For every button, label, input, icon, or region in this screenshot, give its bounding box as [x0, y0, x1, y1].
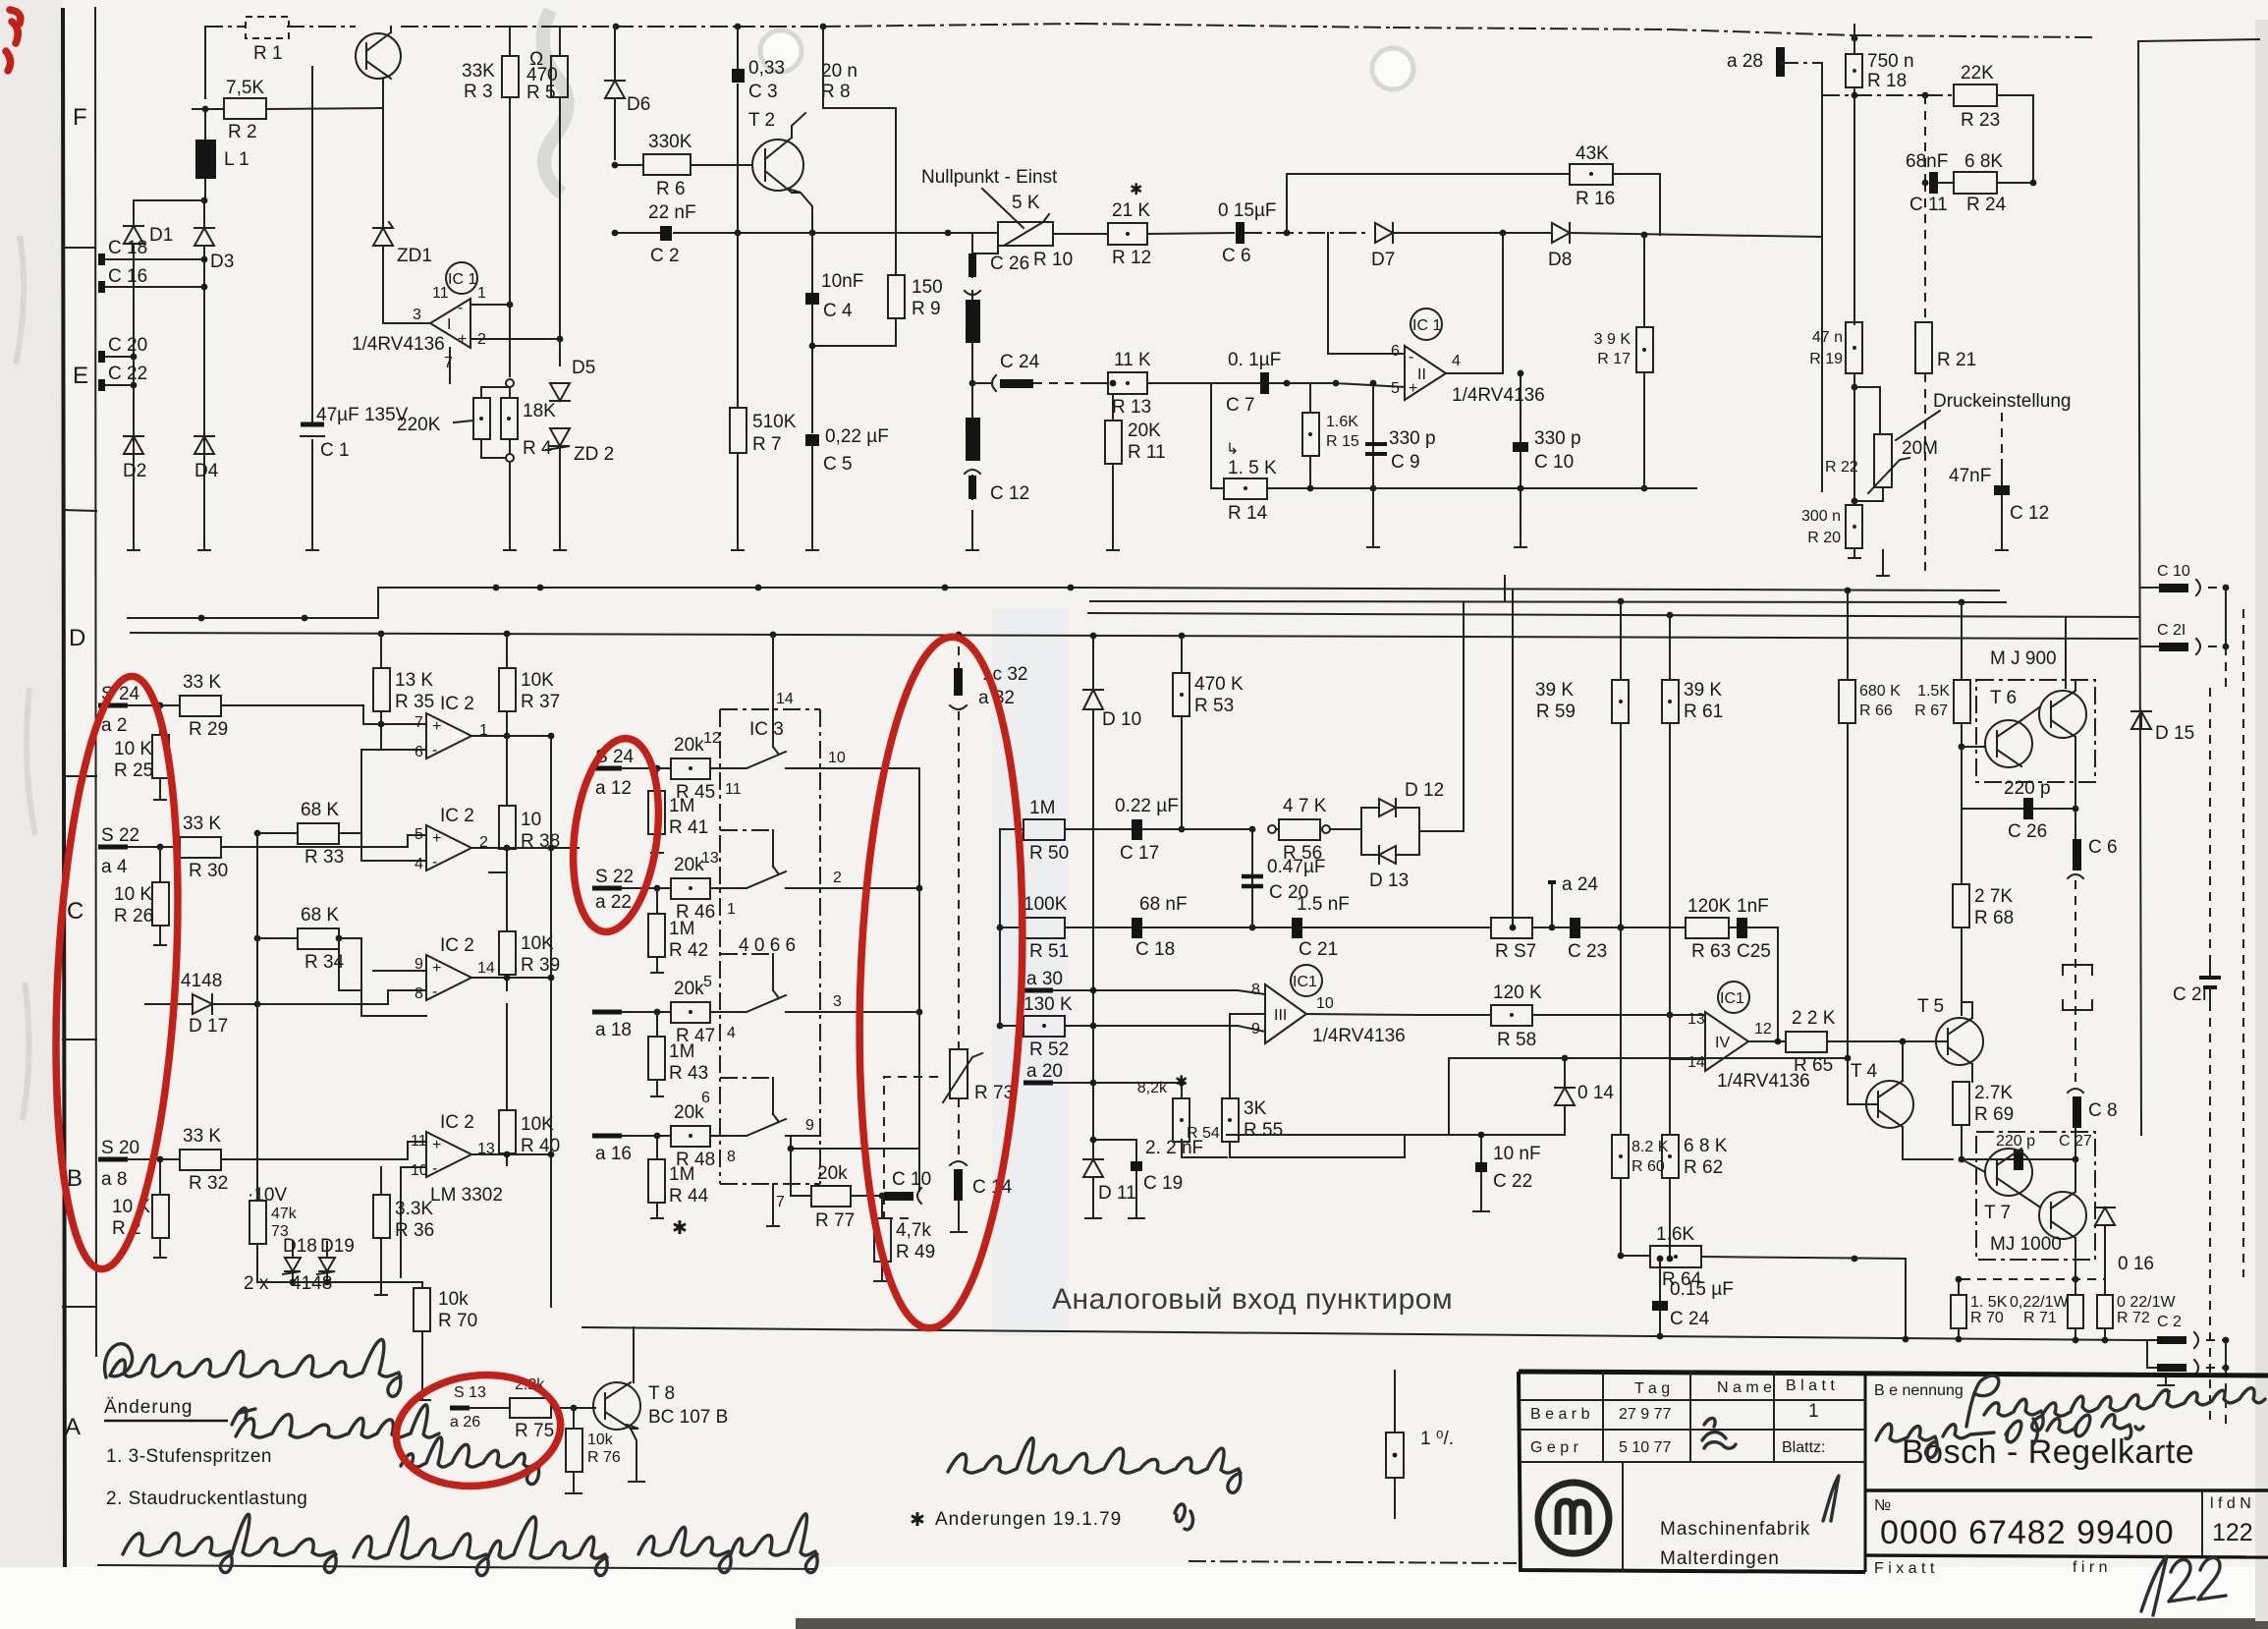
- svg-text:2 x: 2 x: [244, 1273, 269, 1294]
- svg-text:2. Staudruckentlastung: 2. Staudruckentlastung: [106, 1489, 307, 1509]
- svg-text:R 69: R 69: [1974, 1104, 2014, 1125]
- svg-text:C 5: C 5: [823, 454, 853, 475]
- svg-text:IV: IV: [1715, 1035, 1730, 1051]
- resistor R12 21K: [1108, 200, 1234, 268]
- capacitor C5 0.22uF: [805, 426, 889, 550]
- connector C10: [884, 1169, 931, 1204]
- svg-text:D: D: [69, 625, 85, 651]
- svg-text:R 62: R 62: [1684, 1157, 1723, 1178]
- svg-text:R 39: R 39: [521, 955, 560, 976]
- resistor R7 510K: [730, 233, 797, 550]
- legend 1% resistor: [1386, 1371, 1454, 1518]
- svg-text:120K: 120K: [1687, 896, 1732, 917]
- resistor R2 7.5K: [193, 78, 383, 142]
- wire: R8 column: [823, 27, 896, 275]
- svg-text:R 37: R 37: [521, 692, 560, 712]
- svg-text:1.5 nF: 1.5 nF: [1297, 894, 1350, 915]
- switch glyph 3: [732, 954, 820, 1012]
- svg-text:LM 3302: LM 3302: [430, 1185, 503, 1206]
- svg-text:IC1: IC1: [1293, 974, 1317, 990]
- svg-text:330 p: 330 p: [1534, 428, 1581, 449]
- wire: R50-R52 left column: [999, 829, 1001, 1026]
- svg-text:C 2Ι: C 2Ι: [2157, 622, 2185, 639]
- resistor R61 39K: [1662, 680, 1723, 1018]
- red pen marks top left corner: [6, 10, 21, 71]
- wire: band bus left short: [128, 617, 378, 619]
- svg-text:a 4: a 4: [101, 857, 128, 877]
- svg-text:D19: D19: [320, 1236, 355, 1257]
- svg-text:5: 5: [703, 974, 712, 990]
- resistor R34 68K: [254, 905, 361, 973]
- svg-text:0.22 µF: 0.22 µF: [1115, 796, 1179, 816]
- resistor R1 (dashed outline): [246, 17, 289, 64]
- svg-text:13: 13: [1687, 1011, 1705, 1028]
- resistor R40 10K: [499, 1004, 560, 1165]
- svg-text:R 21: R 21: [1937, 350, 1976, 370]
- resistor R68 2.7K: [1953, 809, 2014, 1015]
- wire: drops to middle section: [1621, 590, 2066, 688]
- svg-text:D 11: D 11: [1098, 1183, 1136, 1204]
- svg-text:R 36: R 36: [395, 1220, 434, 1241]
- frame bottom dash right: [1189, 1561, 1517, 1563]
- svg-text:✱: ✱: [672, 1218, 688, 1239]
- svg-text:6 8 K: 6 8 K: [1684, 1136, 1728, 1156]
- svg-text:R 56: R 56: [1283, 843, 1322, 864]
- svg-text:33 K: 33 K: [183, 1126, 221, 1147]
- wire: C7 left column: [1210, 383, 1212, 488]
- svg-text:✱: ✱: [1175, 1074, 1188, 1091]
- svg-text:C 10: C 10: [892, 1169, 931, 1190]
- svg-text:11: 11: [432, 285, 449, 302]
- svg-text:R 23: R 23: [1961, 110, 2000, 131]
- svg-text:0,22/1W: 0,22/1W: [2010, 1294, 2069, 1311]
- svg-text:C 26: C 26: [990, 253, 1029, 274]
- op-amp IC1-II: [1391, 309, 1545, 406]
- capacitor C27 220p: [1962, 1133, 2092, 1170]
- capacitor C12 47nF: [1949, 413, 2049, 550]
- svg-text:7: 7: [444, 355, 453, 371]
- frame bottom line left: [98, 1565, 815, 1569]
- svg-text:T 7: T 7: [1984, 1203, 2011, 1223]
- resistor R44 1M: [648, 1136, 709, 1218]
- connector C6: [2068, 796, 2118, 1041]
- svg-text:R 70: R 70: [1970, 1310, 2004, 1326]
- connector stub C16: [98, 266, 207, 293]
- svg-text:C 19: C 19: [1143, 1173, 1183, 1194]
- svg-text:IC 3: IC 3: [749, 719, 784, 740]
- svg-text:330K: 330K: [648, 132, 692, 152]
- svg-text:0,33: 0,33: [748, 58, 785, 79]
- wire: loop to D14: [1449, 1058, 1565, 1135]
- shielded block upper: [966, 300, 980, 343]
- svg-text:C 7: C 7: [1226, 395, 1255, 416]
- capacitor C21 1.5nF: [1252, 894, 1516, 960]
- svg-text:C25: C25: [1737, 941, 1771, 962]
- wire: x1940 drop: [1905, 1259, 1907, 1339]
- wire: D1 branch: [134, 200, 204, 550]
- diode D7: [1371, 223, 1503, 270]
- svg-text:R 54: R 54: [1187, 1125, 1220, 1142]
- diode D4: [194, 436, 219, 481]
- svg-text:10 K: 10 K: [114, 739, 152, 759]
- connector a24: [1548, 874, 1598, 930]
- connector C10 right edge: [2141, 563, 2229, 595]
- manufacturer logo: [1538, 1483, 1609, 1553]
- svg-text:R 60: R 60: [1632, 1158, 1665, 1175]
- wire: IC1-II pin6 loop to C6: [1328, 233, 1405, 354]
- resistor R25 10K: [114, 705, 169, 800]
- svg-text:C 2: C 2: [2157, 1314, 2182, 1330]
- title table texts: [1530, 1377, 2253, 1577]
- svg-text:20 n: 20 n: [821, 61, 857, 82]
- resistor R42 1M: [648, 888, 708, 973]
- svg-text:R 16: R 16: [1576, 189, 1615, 209]
- resistor R43 1M: [648, 1012, 708, 1096]
- svg-text:C 23: C 23: [1568, 941, 1607, 962]
- resistor R47 20k: [671, 974, 736, 1046]
- resistor R50 1M: [1000, 798, 1132, 864]
- diode D12: [1361, 780, 1444, 829]
- svg-text:C 3: C 3: [748, 82, 778, 102]
- svg-text:C 10: C 10: [2157, 563, 2190, 580]
- switch glyph 2: [732, 830, 820, 888]
- connector C14: [950, 1161, 1013, 1232]
- transistor pair T7 MJ1000 dashed box: [1962, 1132, 2095, 1279]
- resistor R62 6.8K: [1662, 1059, 1728, 1262]
- svg-text:0 14: 0 14: [1577, 1083, 1614, 1103]
- resistor R69 2.7K: [1953, 1082, 2014, 1162]
- capacitor C1 47uF 135V: [301, 67, 409, 550]
- svg-text:2 2 K: 2 2 K: [1792, 1008, 1836, 1029]
- svg-text:C 12: C 12: [990, 483, 1029, 504]
- wire: dash-dot outer right vertical: [2242, 609, 2244, 1277]
- svg-text:A: A: [65, 1414, 81, 1440]
- wire: IC1-II output: [1446, 233, 1503, 373]
- svg-text:+: +: [432, 960, 441, 977]
- svg-text:10: 10: [521, 810, 541, 830]
- resistor R23 22K: [1954, 63, 2033, 183]
- svg-text:C 11: C 11: [1909, 195, 1948, 215]
- svg-text:+: +: [458, 331, 467, 348]
- svg-text:R 51: R 51: [1029, 941, 1069, 962]
- svg-text:10: 10: [828, 750, 846, 766]
- svg-text:0 22/1W: 0 22/1W: [2117, 1294, 2176, 1311]
- svg-text:M J 900: M J 900: [1990, 648, 2057, 669]
- svg-text:10: 10: [411, 1162, 428, 1179]
- label +10V: [248, 1185, 287, 1206]
- svg-text:D2: D2: [123, 461, 146, 481]
- svg-text:C 24: C 24: [1000, 352, 1040, 372]
- resistor R77 20k: [791, 1149, 885, 1231]
- svg-text:+: +: [432, 830, 441, 847]
- wire: output3: [471, 978, 551, 1004]
- capacitor C23: [1568, 918, 1686, 962]
- capacitor C26 220p: [1962, 747, 2078, 842]
- svg-text:1/4RV4136: 1/4RV4136: [1452, 385, 1545, 406]
- svg-text:10K: 10K: [521, 1114, 554, 1135]
- svg-text:R 12: R 12: [1112, 248, 1151, 268]
- svg-text:C 22: C 22: [1493, 1171, 1532, 1192]
- connector S22/a22: [592, 867, 671, 913]
- wire: feedback column x368: [339, 750, 426, 1016]
- connector S20/a8 input: [98, 1138, 180, 1190]
- connector S22/a4 input: [98, 825, 180, 877]
- wire: T7 emitter dash row: [1962, 1278, 2105, 1280]
- wire: switch collector vertical: [918, 778, 920, 1191]
- svg-text:1M: 1M: [1029, 798, 1055, 818]
- svg-text:4 7 K: 4 7 K: [1283, 796, 1327, 816]
- capacitor C6 0.15uF: [1218, 200, 1370, 266]
- svg-text:8: 8: [727, 1149, 736, 1165]
- diode D8: [1500, 223, 1822, 270]
- resistor R30 33K: [157, 814, 426, 881]
- resistor R55 3K: [1222, 1014, 1283, 1157]
- svg-text:C 6: C 6: [1222, 246, 1251, 266]
- svg-text:R 8: R 8: [821, 82, 851, 102]
- svg-text:3: 3: [833, 993, 842, 1010]
- svg-text:Maschinenfabrik: Maschinenfabrik: [1660, 1519, 1810, 1540]
- label Anderung underlined: [104, 1397, 228, 1421]
- svg-text:R 66: R 66: [1859, 702, 1893, 719]
- svg-text:1. 3-Stufenspritzen: 1. 3-Stufenspritzen: [106, 1446, 272, 1467]
- resistor R3 33K: [462, 27, 519, 376]
- resistor R6 330K: [612, 132, 752, 199]
- resistor R5 470: [526, 27, 568, 365]
- svg-text:18K: 18K: [523, 401, 556, 421]
- resistor R39 10K: [499, 848, 560, 990]
- svg-text:1: 1: [1808, 1401, 1819, 1422]
- svg-text:S 13: S 13: [454, 1384, 486, 1401]
- shielded block lower: [966, 418, 980, 461]
- wire: switch4 output pin9: [791, 1136, 919, 1149]
- wire: riser from top section x1532: [1504, 576, 1506, 601]
- svg-text:N a m e: N a m e: [1717, 1379, 1772, 1396]
- svg-text:4: 4: [415, 856, 423, 872]
- handwriting: Изменения (upper): [110, 1339, 401, 1396]
- svg-text:0 15µF: 0 15µF: [1218, 200, 1277, 221]
- svg-text:10K: 10K: [521, 933, 554, 954]
- resistor R11 20K: [1105, 380, 1166, 550]
- svg-text:C 24: C 24: [1670, 1309, 1710, 1329]
- svg-text:№: №: [1874, 1497, 1891, 1514]
- svg-text:1 ⁰/.: 1 ⁰/.: [1420, 1429, 1454, 1449]
- svg-text:10 K: 10 K: [114, 884, 152, 905]
- svg-text:R 59: R 59: [1536, 702, 1576, 722]
- svg-text:R 30: R 30: [189, 861, 228, 881]
- svg-text:R 7: R 7: [752, 434, 782, 455]
- svg-text:I: I: [447, 316, 451, 333]
- svg-text:C 4: C 4: [823, 301, 853, 321]
- zener ZD2: [546, 428, 614, 550]
- svg-text:3K: 3K: [1244, 1098, 1267, 1119]
- resistor R13 11K: [1090, 350, 1211, 418]
- connector a18: [592, 1009, 671, 1040]
- svg-text:13: 13: [701, 850, 719, 867]
- capacitor C10 330p: [1513, 370, 1581, 488]
- capacitor C17 0.22uF: [1115, 796, 1255, 864]
- resistor R53 470K: [1173, 636, 1244, 832]
- svg-text:Аналоговый вход пунктиром: Аналоговый вход пунктиром: [1052, 1283, 1453, 1316]
- svg-text:122: 122: [2212, 1519, 2253, 1546]
- switch glyph 1: [732, 709, 820, 768]
- svg-text:10K: 10K: [521, 670, 554, 691]
- wire: output4: [471, 1154, 551, 1165]
- svg-text:R 58: R 58: [1497, 1030, 1536, 1050]
- svg-text:f i r n: f i r n: [2073, 1559, 2108, 1576]
- svg-text:R 55: R 55: [1244, 1120, 1283, 1141]
- resistor R20 300n: [1801, 498, 1862, 558]
- svg-text:220 p: 220 p: [1996, 1133, 2035, 1150]
- svg-text:R 24: R 24: [1966, 195, 2007, 215]
- capacitor C4 10nF: [805, 233, 863, 432]
- svg-text:R 5: R 5: [526, 83, 556, 103]
- svg-text:IC 2: IC 2: [440, 806, 474, 826]
- svg-text:680 K: 680 K: [1859, 683, 1901, 700]
- svg-text:2.7K: 2.7K: [1974, 1083, 2013, 1103]
- diode D3: [194, 228, 234, 272]
- wire: IC1 pin1 pin2: [450, 305, 560, 383]
- svg-text:C 18: C 18: [108, 238, 147, 258]
- svg-text:II: II: [1417, 366, 1426, 383]
- frame row ticks: [63, 248, 96, 1307]
- svg-text:C 14: C 14: [972, 1177, 1013, 1198]
- svg-text:150: 150: [912, 277, 943, 298]
- connector stub C22: [98, 364, 147, 391]
- svg-text:IC 2: IC 2: [440, 935, 474, 956]
- title block frame: [1519, 1372, 2268, 1572]
- svg-text:C 2Ι: C 2Ι: [2173, 984, 2207, 1005]
- svg-text:100K: 100K: [1023, 894, 1068, 915]
- svg-text:+: +: [432, 1137, 441, 1153]
- svg-text:D18: D18: [283, 1236, 317, 1257]
- connector C2 pair: [2137, 1332, 2229, 1391]
- svg-text:R 15: R 15: [1326, 433, 1359, 450]
- connector C24 on dashed line: [972, 352, 1090, 391]
- label Anderungen 19.1.79: [910, 1504, 1192, 1531]
- zener D19: [317, 1236, 355, 1282]
- svg-text:R 52: R 52: [1029, 1039, 1069, 1060]
- svg-text:1. 5 K: 1. 5 K: [1228, 458, 1277, 478]
- capacitor C3 0.33: [732, 27, 785, 233]
- resistor R38 10: [489, 736, 560, 872]
- svg-text:R 43: R 43: [669, 1063, 708, 1084]
- zener ZD1: [373, 222, 432, 266]
- svg-text:33K: 33K: [462, 61, 495, 82]
- svg-text:R 20: R 20: [1807, 530, 1841, 546]
- svg-text:C 12: C 12: [2010, 503, 2049, 524]
- wire: y237 mid: [948, 233, 1108, 234]
- svg-text:1: 1: [727, 901, 736, 918]
- svg-text:R 29: R 29: [189, 719, 228, 740]
- svg-text:R 32: R 32: [189, 1173, 228, 1194]
- svg-text:S 22: S 22: [101, 825, 139, 846]
- svg-text:T 6: T 6: [1990, 688, 2017, 708]
- resistor R51 100K: [1000, 894, 1132, 962]
- svg-text:R 10: R 10: [1033, 250, 1073, 270]
- svg-text:2 7K: 2 7K: [1974, 886, 2013, 907]
- svg-text:a 8: a 8: [101, 1169, 127, 1190]
- capacitor C9 330p: [1365, 380, 1436, 488]
- svg-text:68 nF: 68 nF: [1139, 894, 1188, 915]
- wire: band bus upper left: [378, 588, 1071, 618]
- capacitor C20 0.47uF: [1242, 829, 1326, 927]
- svg-text:750 n: 750 n: [1867, 51, 1914, 72]
- svg-text:R 50: R 50: [1029, 843, 1069, 864]
- svg-text:a 30: a 30: [1026, 969, 1063, 989]
- svg-text:7,5K: 7,5K: [226, 78, 264, 98]
- wire: minus input risers: [380, 724, 382, 750]
- svg-text:C: C: [67, 898, 83, 925]
- svg-text:47 n: 47 n: [1812, 329, 1843, 346]
- svg-text:R 42: R 42: [669, 940, 708, 961]
- handwriting: Регистровочная: [1876, 1376, 2265, 1458]
- resistor R72 0.22/1W: [2097, 1279, 2182, 1343]
- capacitor C18 68nF: [1132, 894, 1255, 960]
- zener D18: [283, 1236, 317, 1282]
- svg-text:22 nF: 22 nF: [648, 202, 696, 223]
- svg-text:R 17: R 17: [1597, 351, 1631, 367]
- resistor R56 47K: [1268, 796, 1361, 864]
- resistor R28 10K: [112, 1159, 169, 1258]
- svg-text:G e p r: G e p r: [1530, 1439, 1579, 1456]
- transistor pair T6 MJ900 dashed box: [1962, 648, 2095, 796]
- wire: R55 to a24 column: [1230, 1013, 1265, 1015]
- resistor R58 120K: [1419, 925, 1705, 1050]
- svg-text:R 63: R 63: [1691, 941, 1731, 962]
- svg-text:F i x a t t: F i x a t t: [1874, 1560, 1935, 1577]
- svg-text:4: 4: [727, 1025, 736, 1041]
- potentiometer R10 5K: [972, 193, 1073, 270]
- switch glyph 4: [732, 1078, 820, 1136]
- svg-text:8.2 K: 8.2 K: [1632, 1139, 1669, 1155]
- diode D1: [124, 225, 173, 246]
- svg-text:-: -: [432, 1160, 437, 1177]
- svg-text:4: 4: [1452, 353, 1461, 369]
- wire: C24 node: [971, 343, 973, 418]
- svg-text:27 9 77: 27 9 77: [1619, 1406, 1671, 1423]
- resistor R54 8.2k: [1137, 1080, 1220, 1157]
- svg-text:✱: ✱: [910, 1510, 925, 1531]
- svg-text:R 49: R 49: [896, 1242, 935, 1263]
- svg-text:a 22: a 22: [595, 892, 632, 913]
- capacitor C2 22nF: [612, 202, 948, 266]
- svg-text:3 9 K: 3 9 K: [1594, 331, 1632, 348]
- resistor R63 120K: [1686, 896, 1737, 962]
- svg-text:D5: D5: [572, 358, 595, 378]
- resistor R32 33K: [157, 1126, 426, 1194]
- svg-text:R 26: R 26: [114, 906, 153, 927]
- schematic bottom bus: [582, 1327, 2137, 1340]
- svg-text:1M: 1M: [669, 796, 694, 816]
- wire: R22 bottom stub: [1877, 550, 1889, 576]
- wire: C9 C10 columns down: [1373, 488, 1521, 547]
- wire: right loop vertical: [1821, 63, 1823, 491]
- resistor R70 1.5K: [1951, 1276, 2008, 1343]
- red markup ellipse analog input: [849, 634, 1033, 1330]
- svg-text:R 14: R 14: [1228, 503, 1268, 524]
- connector stub C20: [98, 335, 147, 363]
- svg-text:-: -: [1409, 349, 1413, 365]
- svg-text:B e a r b: B e a r b: [1530, 1406, 1590, 1423]
- svg-text:5 10 77: 5 10 77: [1619, 1439, 1671, 1456]
- capacitor C28 right edge: [2173, 961, 2221, 1005]
- node L1/D3 join: [201, 197, 208, 204]
- svg-text:R 70: R 70: [438, 1311, 477, 1331]
- svg-text:Blattz:: Blattz:: [1782, 1439, 1825, 1456]
- svg-text:R 2: R 2: [228, 122, 257, 142]
- handwriting: 3-хетуш. кирпич: [236, 1405, 439, 1437]
- op-amp IC2 c: [415, 935, 495, 1002]
